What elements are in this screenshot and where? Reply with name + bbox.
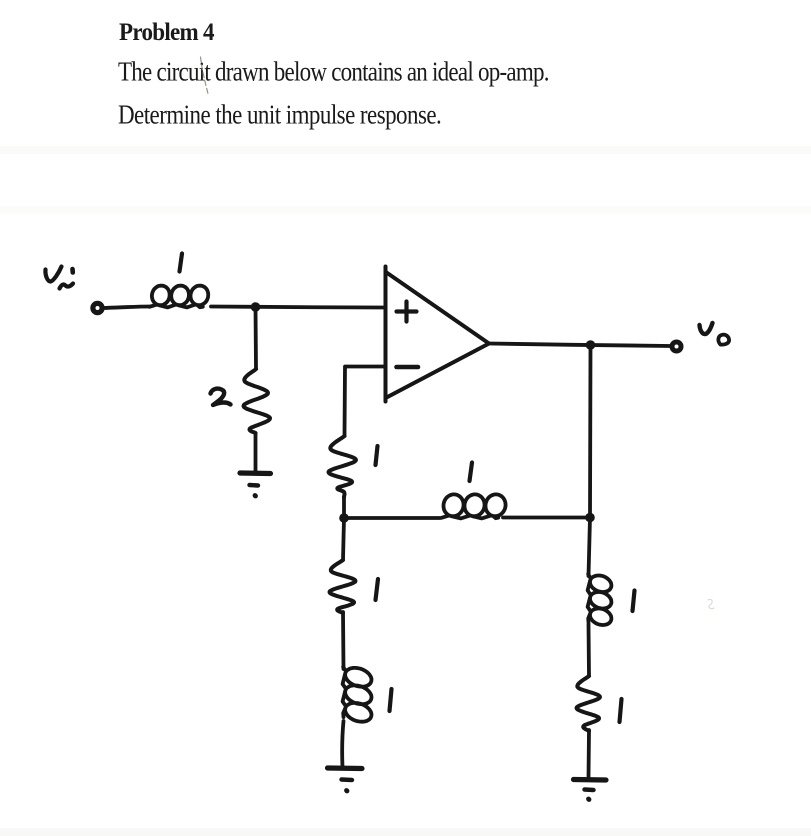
wire op-amp - input to R2 xyxy=(345,367,386,437)
value label 1 (R4) xyxy=(620,699,622,722)
value label 1 (R2) xyxy=(376,446,378,465)
wire L4 to R4 xyxy=(587,624,591,676)
stray scan scratch mark xyxy=(201,57,209,96)
faint margin squiggle xyxy=(708,599,714,608)
output terminal xyxy=(672,342,681,351)
ground (left branch) xyxy=(328,768,363,791)
label vi xyxy=(45,267,73,289)
value label 1 (L3) xyxy=(390,689,392,711)
resistor R3 xyxy=(330,560,356,613)
input terminal xyxy=(93,303,102,312)
wire L1 to op-amp + input xyxy=(211,307,385,308)
inductor L1 xyxy=(150,286,209,308)
node D junction xyxy=(585,513,595,523)
value label 1 (L1) xyxy=(180,254,183,272)
wire R2 to node C xyxy=(342,497,346,518)
wire L3 to ground xyxy=(342,721,343,767)
resistor R4 xyxy=(577,676,601,731)
wire node B down to node D xyxy=(588,345,592,518)
wire node D down to L4 xyxy=(589,518,591,577)
op-amp + pin label xyxy=(397,302,417,322)
value label 1 (R3) xyxy=(376,579,379,600)
wire input to node A xyxy=(103,307,150,309)
text line 1 xyxy=(118,57,549,88)
node C junction xyxy=(339,513,349,523)
value label 1 (L2) xyxy=(470,463,473,482)
wire R4 to ground xyxy=(587,730,591,778)
title: Problem 4 xyxy=(119,18,214,47)
resistor R1 xyxy=(244,369,271,433)
wire node C down to R3 xyxy=(343,518,344,560)
value label 2 (R1) xyxy=(211,389,231,405)
inductor L2 xyxy=(442,494,506,518)
wire L2 to node D xyxy=(503,516,590,520)
ground (below R1) xyxy=(240,473,271,496)
resistor R2 xyxy=(329,436,357,497)
value label 1 (L4) xyxy=(633,591,635,612)
inductor L4 xyxy=(588,574,612,625)
label vo xyxy=(700,323,730,345)
op-amp U1 xyxy=(386,267,490,402)
wire op-amp output to vo terminal xyxy=(490,344,672,347)
wire node C to L2 xyxy=(344,516,440,520)
op-amp - pin label xyxy=(397,365,419,370)
wire node A down to R1 xyxy=(254,307,258,369)
wire R1 to ground xyxy=(254,433,258,472)
inductor L3 xyxy=(343,667,372,722)
node A junction xyxy=(251,302,261,312)
wire R3 to L3 xyxy=(341,612,345,669)
text line 2 xyxy=(118,100,441,131)
ground (right branch) xyxy=(574,780,607,800)
node B junction (output) xyxy=(586,340,596,350)
